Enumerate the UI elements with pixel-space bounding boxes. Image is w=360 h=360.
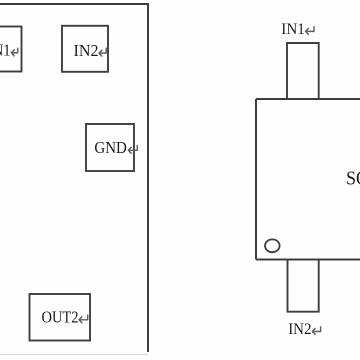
svg-text:IN2: IN2 <box>288 321 311 338</box>
svg-text:GND: GND <box>94 138 127 157</box>
svg-text:OUT2: OUT2 <box>42 308 79 327</box>
svg-text:IN1: IN1 <box>0 41 11 60</box>
svg-text:SOT23: SOT23 <box>346 167 360 189</box>
svg-text:IN2: IN2 <box>74 41 99 60</box>
svg-text:IN1: IN1 <box>281 21 305 38</box>
